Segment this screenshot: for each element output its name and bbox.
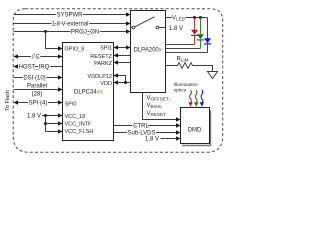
svg-text:VRESET: VRESET <box>147 111 167 117</box>
wire branch to VCC_FLSH <box>46 131 59 133</box>
wire DSI (10) <box>14 77 59 79</box>
DMD block shadow <box>182 111 211 146</box>
arrowhead into VCC_FLSH <box>58 129 63 133</box>
LED D3 blue <box>207 18 209 39</box>
svg-text:PROJ_ON: PROJ_ON <box>71 30 99 36</box>
svg-text:DLPC34xx: DLPC34xx <box>74 90 103 96</box>
junction dot 1.8V at VCC_INTF <box>44 122 47 125</box>
LED D1 red <box>194 18 196 30</box>
resistor RLIM <box>166 63 213 72</box>
svg-text:DMD: DMD <box>188 128 202 134</box>
svg-text:(28): (28) <box>32 91 43 97</box>
wire CTRL <box>114 125 177 127</box>
svg-text:RLIM: RLIM <box>177 57 189 63</box>
wire green LED cathode to DLPA200x <box>166 48 201 50</box>
svg-text:I2C: I2C <box>32 53 41 61</box>
wire RESETZ <box>118 55 131 57</box>
arrowhead CTRL into DMD <box>176 123 181 127</box>
svg-text:1.8 V: 1.8 V <box>27 114 41 120</box>
svg-text:PARKZ: PARKZ <box>94 61 113 67</box>
LED D2 green <box>200 18 202 35</box>
arrowhead RESETZ into DLPC34xx <box>114 53 119 57</box>
svg-text:DSI (10): DSI (10) <box>23 76 45 82</box>
svg-text:Illumination: Illumination <box>174 82 199 88</box>
arrowhead I2C out (left) <box>14 54 19 58</box>
wire branch to VCC_INTF <box>46 123 59 125</box>
svg-text:VCC_18: VCC_18 <box>65 114 86 120</box>
wire 1.8V to VCC_18 <box>42 115 59 117</box>
junction dot VDD/VDDLP12 <box>124 81 127 84</box>
wire SYSPWR <box>14 14 127 16</box>
arrowhead 1.8V external into DLPA200x <box>126 21 131 25</box>
wire Sub-LVDS <box>114 132 177 134</box>
controller U1 DLPC34xx block <box>63 43 114 141</box>
wire Parallel (28) <box>14 89 59 91</box>
svg-text:SYSPWR: SYSPWR <box>56 13 83 19</box>
arrowhead HOST_IRQ out (left) <box>14 64 19 68</box>
wire 1.8 V external <box>14 23 127 25</box>
svg-text:VBIAS,: VBIAS, <box>147 103 163 109</box>
arrowhead SPI1 into DLPA200x <box>126 45 131 49</box>
wire blue LED cathode to DLPA200x <box>166 52 208 54</box>
svg-text:Parallel: Parallel <box>27 84 47 90</box>
wire SPI1 bidirectional <box>118 47 127 49</box>
system boundary dashed border <box>13 9 223 153</box>
DMD block <box>181 108 210 144</box>
wire I2C <box>18 56 59 58</box>
wire 1.8V to DMD <box>161 138 177 140</box>
arrowhead SPI into DLPC34xx <box>58 100 63 104</box>
svg-text:VOFFSET,: VOFFSET, <box>147 96 171 102</box>
svg-text:CTRL: CTRL <box>133 124 149 130</box>
arrowhead PARKZ into DLPC34xx <box>114 60 119 64</box>
wire PROJ_ON branch to GPIO_8 <box>46 32 59 49</box>
arrowhead into VCC_INTF <box>58 121 63 125</box>
svg-text:GPIO_8: GPIO_8 <box>65 46 85 52</box>
svg-text:HOST_IRQ: HOST_IRQ <box>19 65 50 71</box>
svg-text:RESETZ: RESETZ <box>90 54 112 60</box>
arrowhead Parallel into DLPC34xx <box>58 87 63 91</box>
arrowhead SPI1 into DLPC34xx <box>114 45 119 49</box>
wire VOFFSET/VBIAS/VRESET from DLPA200x to DMD <box>143 93 177 120</box>
PMIC U2 DLPA200x block <box>131 11 166 93</box>
arrowhead VDD into DLPC34xx <box>114 80 119 84</box>
wire red LED cathode to DLPA200x <box>166 44 195 46</box>
arrowhead SPI out to flash (left) <box>14 100 19 104</box>
junction dot VLED green <box>199 16 202 19</box>
light ray red <box>190 90 192 104</box>
arrowhead VDDLP12 into DLPC34xx <box>114 73 119 77</box>
arrowhead I2C into DLPC34xx <box>58 54 63 58</box>
wire 1.8V vertical branch <box>45 116 47 132</box>
wire SPI (4) <box>18 102 59 104</box>
junction dot PROJ_ON branch <box>44 30 47 33</box>
arrowhead Sub-LVDS into DMD <box>176 130 181 134</box>
ground symbol <box>208 72 218 79</box>
svg-text:VLED: VLED <box>172 16 186 22</box>
arrowhead SYSPWR into DLPA200x <box>126 12 131 16</box>
arrowhead into VCC_18 <box>58 113 63 117</box>
wire PROJ_ON <box>14 31 127 33</box>
arrowhead bias wire into DMD <box>176 117 181 121</box>
svg-text:optics: optics <box>174 87 187 93</box>
junction dot 1.8V at VCC_18 <box>44 114 47 117</box>
svg-text:VDD: VDD <box>100 81 112 87</box>
svg-text:SPI (4): SPI (4) <box>29 101 48 107</box>
svg-text:VCC_INTF: VCC_INTF <box>65 122 93 128</box>
arrowhead DSI into DLPC34xx <box>58 75 63 79</box>
svg-text:1.8 V external: 1.8 V external <box>51 22 88 28</box>
svg-text:VCC_FLSH: VCC_FLSH <box>65 129 94 135</box>
svg-text:1.8 V: 1.8 V <box>145 137 159 143</box>
svg-text:VDDLP12: VDDLP12 <box>88 74 112 80</box>
svg-text:DLPA200x: DLPA200x <box>134 48 162 54</box>
svg-text:To Flash: To Flash <box>5 90 11 111</box>
wire VDDLP12 <box>118 76 126 83</box>
svg-text:SPI0: SPI0 <box>65 101 77 107</box>
light ray blue <box>201 90 203 104</box>
switch S1 inside DLPA200x <box>131 27 133 29</box>
wire VLED <box>166 17 208 19</box>
junction dot VLED red <box>193 16 196 19</box>
wire VDD <box>118 82 131 84</box>
light ray green <box>195 90 197 104</box>
svg-text:1.8 V: 1.8 V <box>169 26 183 32</box>
wire PARKZ <box>118 62 131 64</box>
arrowhead 1.8V into DMD <box>176 136 181 140</box>
arrowhead into GPIO_8 pin <box>58 46 63 50</box>
arrowhead PROJ_ON into DLPA200x <box>126 29 131 33</box>
svg-text:SPI1: SPI1 <box>100 46 112 52</box>
wire HOST_IRQ <box>18 66 63 68</box>
